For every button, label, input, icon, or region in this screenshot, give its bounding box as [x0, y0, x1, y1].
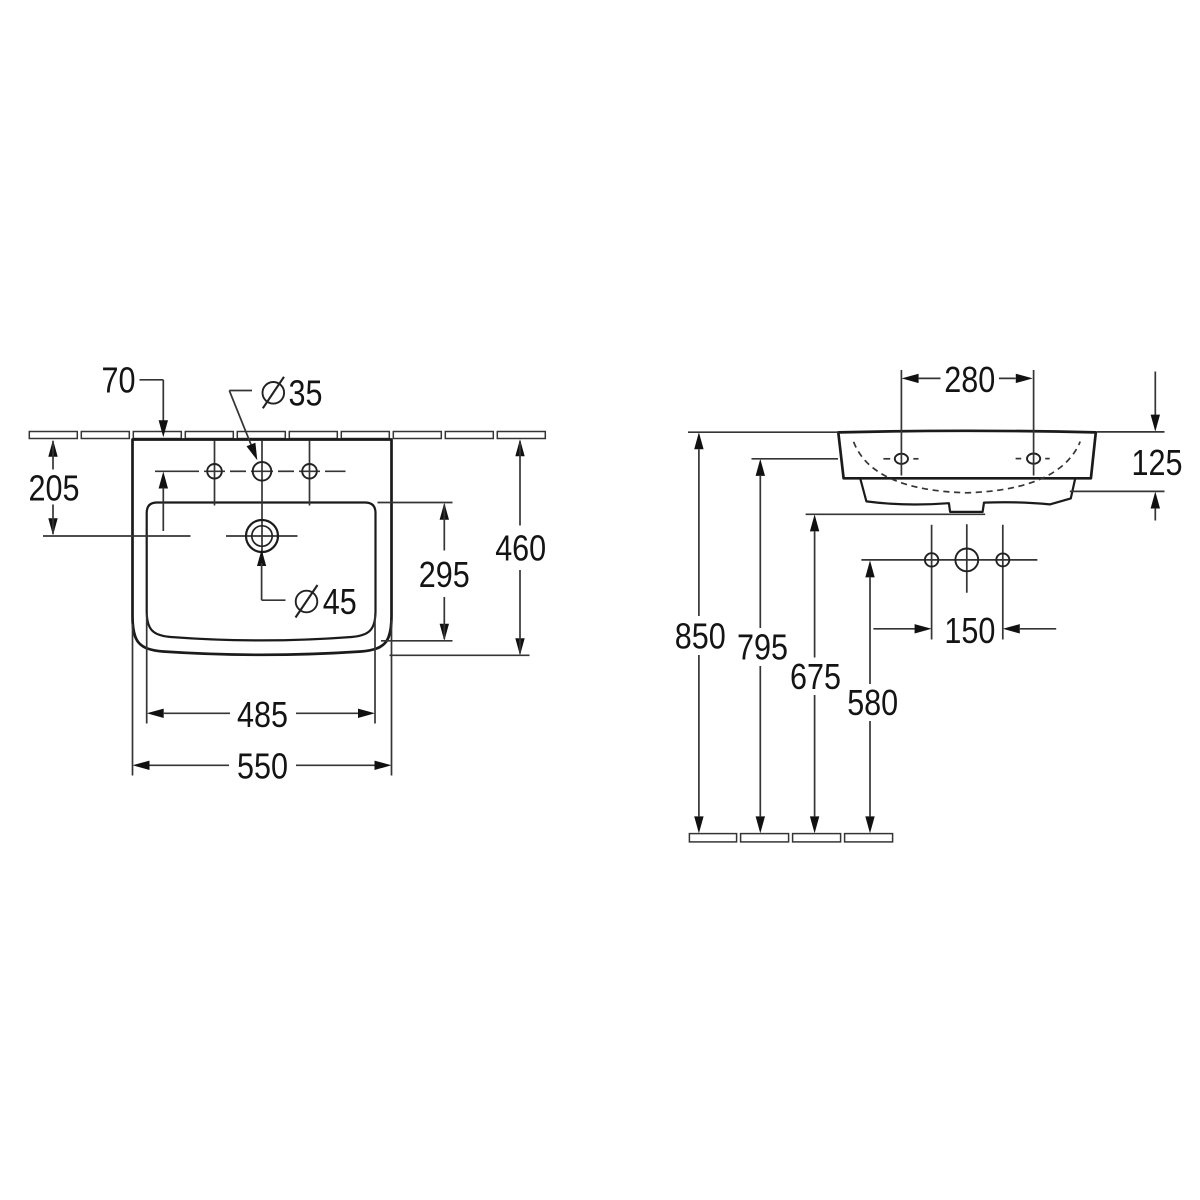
svg-text:550: 550	[237, 745, 288, 786]
dimension 295	[419, 503, 470, 641]
dimension 485	[147, 694, 375, 735]
overflow hole left	[925, 553, 938, 566]
tap hole right	[302, 464, 317, 479]
extension line 460 bottom	[390, 654, 530, 656]
mounting hole centerlines vertical	[901, 370, 1033, 476]
drain centerline vertical	[261, 519, 263, 556]
overflow hole center	[955, 549, 978, 572]
wall hatch tiles (top view)	[29, 432, 545, 439]
extension line 295 bottom	[381, 640, 453, 642]
tap hole center	[253, 462, 272, 481]
basin inner rim dashed curve	[854, 442, 1081, 493]
dimension 205	[29, 440, 80, 536]
dimension 850	[675, 432, 726, 833]
svg-text:70: 70	[102, 360, 136, 401]
dimension 125	[1132, 372, 1183, 521]
svg-text:795: 795	[737, 627, 788, 668]
extension line 795	[752, 458, 839, 460]
dimension 795	[737, 459, 788, 834]
dimension 280	[902, 359, 1033, 400]
drain centerline horizontal	[43, 535, 298, 537]
basin body profile (side view)	[838, 431, 1096, 479]
svg-text:675: 675	[790, 656, 841, 697]
svg-text:35: 35	[289, 372, 323, 413]
floor hatch tiles (side view)	[689, 834, 892, 842]
basin outer outline (top view)	[133, 440, 392, 655]
svg-text:205: 205	[29, 468, 80, 509]
dimension 460	[495, 439, 546, 655]
dimension 70	[102, 360, 169, 532]
svg-text:125: 125	[1132, 442, 1183, 483]
extension line 125 bottom	[1070, 490, 1165, 492]
tap hole left	[207, 464, 222, 479]
label D45 symbol and text	[296, 581, 357, 622]
svg-text:850: 850	[675, 615, 726, 656]
drain outer circle	[246, 520, 278, 552]
extension line 125 top	[1097, 431, 1165, 433]
extension line 675	[806, 513, 986, 515]
tap hole centerline horizontal	[155, 470, 346, 472]
extension lines 550	[133, 620, 392, 776]
dimension 550	[133, 745, 392, 786]
svg-text:45: 45	[323, 581, 357, 622]
drain inner circle	[252, 526, 272, 546]
label D35 leader	[229, 391, 257, 461]
dimension 675	[790, 514, 841, 833]
overflow hole right	[996, 553, 1009, 566]
extension lines 485	[147, 614, 375, 724]
label D45 leader	[257, 550, 286, 601]
svg-text:280: 280	[944, 359, 995, 400]
extension line 295 top	[378, 502, 453, 504]
overflow/tap row centerlines vertical	[932, 524, 1003, 639]
mounting hole left	[883, 454, 918, 464]
dimension 580	[847, 560, 898, 833]
svg-text:460: 460	[495, 528, 546, 569]
overflow/tap row centerline horizontal	[861, 559, 1037, 561]
svg-text:150: 150	[944, 610, 995, 651]
dimension 150	[873, 610, 1056, 651]
extension line 850	[688, 431, 839, 433]
basin inner bowl outline (top view)	[147, 503, 376, 641]
label D35 symbol and text	[263, 372, 323, 413]
svg-text:295: 295	[419, 554, 470, 595]
mounting hole right	[1016, 454, 1050, 464]
svg-text:580: 580	[847, 682, 898, 723]
tap hole centerlines vertical	[215, 441, 310, 520]
basin lower shell profile (side view)	[860, 478, 1075, 512]
svg-text:485: 485	[237, 694, 288, 735]
